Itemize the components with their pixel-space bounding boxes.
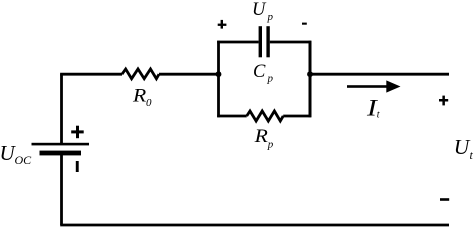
svg-text:0: 0 — [146, 97, 152, 109]
svg-text:t: t — [470, 148, 474, 162]
svg-text:U: U — [252, 0, 267, 20]
svg-text:R: R — [132, 86, 146, 106]
svg-text:t: t — [377, 110, 380, 121]
svg-text:p: p — [267, 139, 274, 151]
svg-text:R: R — [254, 126, 268, 146]
svg-text:U: U — [454, 135, 471, 159]
svg-text:p: p — [267, 11, 274, 23]
svg-text:OC: OC — [15, 153, 33, 167]
svg-text:p: p — [267, 73, 274, 85]
svg-text:C: C — [253, 62, 266, 82]
